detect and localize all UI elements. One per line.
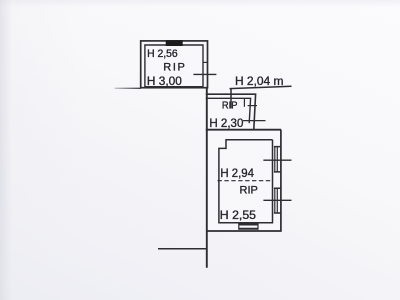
paper highlight top room <box>141 41 208 88</box>
dashed ceiling-height division line <box>218 180 273 182</box>
main vertical spine wall <box>206 88 208 268</box>
top room door (filled sill on top wall) <box>166 40 183 46</box>
svg-text:RIP: RIP <box>163 62 185 74</box>
middle room RIP outer wall (top + right) <box>206 94 256 130</box>
big room door threshold (bottom) <box>239 225 258 229</box>
door jamb line (left) into middle room <box>230 88 232 108</box>
svg-text:H 2,55: H 2,55 <box>220 208 257 222</box>
window W2 caps <box>274 188 281 213</box>
big room top wall / middle room bottom wall <box>206 129 281 131</box>
window W1 center tick <box>263 159 291 161</box>
paper highlight big room <box>206 130 281 231</box>
svg-text:RIP: RIP <box>222 100 238 111</box>
lower-left partition wall line <box>158 248 207 250</box>
dimension tick on top room right wall <box>193 73 216 75</box>
middle room RIP inner wall (top + right) <box>206 98 251 123</box>
dimension tick for H 2,30 <box>243 120 266 122</box>
big room outer wall (right + bottom) <box>206 130 281 231</box>
window W2 panes <box>275 188 278 213</box>
svg-text:H 2,30: H 2,30 <box>209 116 243 130</box>
paper highlight middle room <box>206 94 256 130</box>
top room RIP outer wall <box>141 41 208 88</box>
svg-text:RIP: RIP <box>240 185 258 197</box>
top room RIP inner wall <box>145 45 203 88</box>
svg-text:H 3,00: H 3,00 <box>147 74 182 88</box>
window W1 panes <box>275 147 278 172</box>
window W1 caps <box>274 147 281 172</box>
big room inner wall with top-left notch <box>219 140 273 223</box>
top room inner wall bottom thickening <box>145 86 203 88</box>
top room right wall jamb connector <box>203 61 208 63</box>
dimension line under H 2,04 m <box>230 86 292 88</box>
door jamb line (right) into middle room <box>243 98 245 107</box>
threshold end jambs <box>239 224 258 230</box>
middle room wall connector tick <box>248 105 257 107</box>
svg-text:H 2,94: H 2,94 <box>220 166 254 180</box>
faded wall line extending left of top room <box>115 87 142 89</box>
svg-text:H 2,04 m: H 2,04 m <box>235 74 283 88</box>
svg-text:H 2,56: H 2,56 <box>147 48 178 60</box>
window W2 center tick <box>263 199 291 201</box>
